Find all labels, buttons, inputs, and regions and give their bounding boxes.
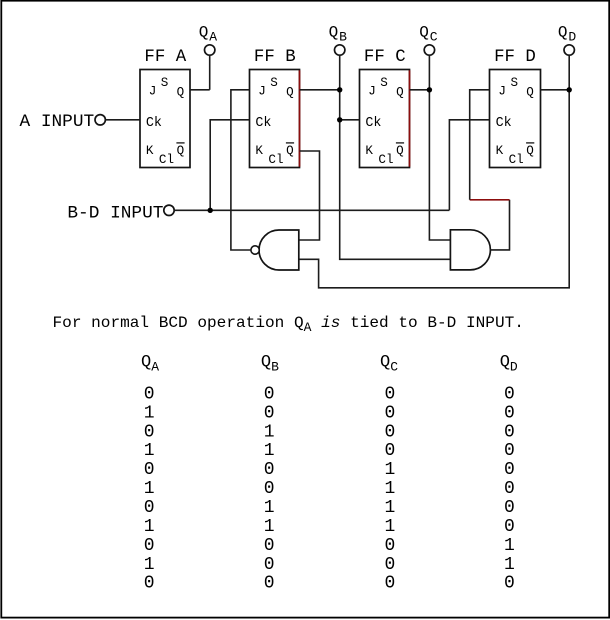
svg-text:S: S <box>161 76 169 90</box>
svg-text:Q: Q <box>500 353 510 372</box>
svg-text:0: 0 <box>384 403 395 423</box>
svg-text:0: 0 <box>264 536 275 556</box>
svg-text:1: 1 <box>384 517 395 537</box>
svg-text:S: S <box>380 76 388 90</box>
svg-text:Q: Q <box>199 23 209 41</box>
svg-text:FF B: FF B <box>254 48 296 67</box>
wire AND output riser to FF D J input <box>470 90 490 200</box>
NAND gate G1 output bubble <box>251 246 259 254</box>
truth table header QA <box>141 353 159 374</box>
svg-text:FF A: FF A <box>144 48 186 67</box>
svg-text:For normal BCD operation QA is: For normal BCD operation QA is tied to B… <box>53 314 524 335</box>
terminal QD circle <box>564 45 574 55</box>
wire B-D input to FF D clock <box>449 120 489 211</box>
svg-text:A INPUT: A INPUT <box>20 112 95 132</box>
svg-text:Cl: Cl <box>378 153 393 167</box>
svg-text:Q: Q <box>141 353 151 372</box>
svg-text:0: 0 <box>144 498 155 518</box>
truth table header QB <box>261 353 279 374</box>
svg-text:0: 0 <box>264 574 275 594</box>
terminal QC label <box>419 23 438 44</box>
svg-text:Q: Q <box>396 144 404 158</box>
terminal QA label <box>199 23 218 44</box>
svg-text:0: 0 <box>504 422 515 442</box>
svg-text:Q: Q <box>286 85 294 99</box>
junction FF D Q / QD terminal <box>567 87 572 92</box>
svg-text:K: K <box>365 144 373 158</box>
truth table column QD values <box>504 384 515 593</box>
svg-text:Cl: Cl <box>509 153 524 167</box>
svg-text:0: 0 <box>504 384 515 404</box>
svg-text:1: 1 <box>264 498 275 518</box>
svg-text:0: 0 <box>264 460 275 480</box>
svg-text:S: S <box>511 76 519 90</box>
NAND gate G1 body <box>259 230 299 270</box>
junction B-D bus to FF B clock <box>208 208 213 213</box>
svg-text:1: 1 <box>384 460 395 480</box>
svg-text:Ck: Ck <box>365 116 381 131</box>
wire FF B Q-bar to NAND gate upper input <box>299 151 320 240</box>
svg-text:1: 1 <box>264 517 275 537</box>
svg-text:FF C: FF C <box>364 48 406 67</box>
wire NAND output to FF B J input <box>231 90 251 250</box>
svg-text:K: K <box>146 144 154 158</box>
svg-text:1: 1 <box>144 479 155 499</box>
svg-text:C: C <box>390 359 398 374</box>
svg-text:Q: Q <box>286 144 294 158</box>
truth table column QC values <box>384 384 395 593</box>
svg-text:Q: Q <box>419 23 429 41</box>
svg-text:C: C <box>430 30 438 45</box>
svg-text:1: 1 <box>264 441 275 461</box>
svg-text:0: 0 <box>264 384 275 404</box>
svg-text:0: 0 <box>504 498 515 518</box>
terminal QB label <box>329 23 348 44</box>
svg-text:1: 1 <box>264 422 275 442</box>
svg-text:1: 1 <box>384 479 395 499</box>
svg-text:J: J <box>149 84 157 98</box>
svg-text:0: 0 <box>144 422 155 442</box>
svg-text:A: A <box>151 359 159 374</box>
wire A input to FF A clock <box>105 119 140 121</box>
svg-text:A: A <box>209 30 217 45</box>
svg-text:0: 0 <box>504 479 515 499</box>
svg-text:0: 0 <box>384 384 395 404</box>
svg-text:D: D <box>568 30 576 45</box>
truth table column QA values <box>144 384 155 593</box>
wire QA terminal to FF A Q output <box>190 55 210 90</box>
input terminal A circle <box>95 115 105 125</box>
svg-text:1: 1 <box>144 517 155 537</box>
svg-text:Q: Q <box>380 353 390 372</box>
svg-text:1: 1 <box>144 441 155 461</box>
svg-text:Ck: Ck <box>146 116 162 131</box>
svg-text:Q: Q <box>558 23 568 41</box>
terminal QA circle <box>205 45 215 55</box>
wire FF D Q output to QD terminal and NAND gate lower input rail <box>299 55 569 288</box>
svg-text:Q: Q <box>526 85 534 99</box>
svg-text:1: 1 <box>144 555 155 575</box>
svg-text:S: S <box>270 76 278 90</box>
flip-flop U1 FF A <box>140 70 190 168</box>
svg-text:0: 0 <box>384 555 395 575</box>
truth table header QD <box>500 353 518 374</box>
svg-text:FF D: FF D <box>494 48 536 67</box>
flip-flop U3 FF C <box>360 70 410 168</box>
svg-text:0: 0 <box>384 536 395 556</box>
svg-text:0: 0 <box>144 536 155 556</box>
flip-flop U4 FF D <box>490 70 541 168</box>
svg-text:0: 0 <box>384 574 395 594</box>
svg-text:0: 0 <box>504 403 515 423</box>
wire AND output to FF D J input <box>491 200 510 250</box>
flip-flop U2 FF B <box>250 70 300 168</box>
svg-text:J: J <box>368 84 376 98</box>
wire B-D input to FF B clock <box>210 120 249 211</box>
svg-text:0: 0 <box>504 460 515 480</box>
svg-text:0: 0 <box>504 574 515 594</box>
svg-text:Q: Q <box>526 144 534 158</box>
terminal QC circle <box>424 45 434 55</box>
wire FF C Q output to QC terminal and AND gate upper input <box>410 55 451 240</box>
truth table header QC <box>380 353 398 374</box>
svg-text:D: D <box>510 359 518 374</box>
junction FF C Q / QC terminal <box>427 87 432 92</box>
wire B-D input bus <box>174 209 449 211</box>
wire AND output red segment <box>470 199 510 201</box>
svg-text:B: B <box>271 359 279 374</box>
svg-text:Cl: Cl <box>268 153 283 167</box>
svg-text:0: 0 <box>504 517 515 537</box>
svg-text:Q: Q <box>261 353 271 372</box>
junction FF B Q / QB terminal <box>337 87 342 92</box>
junction QB to FF C clock <box>337 117 342 122</box>
svg-text:Cl: Cl <box>159 153 174 167</box>
svg-text:0: 0 <box>384 422 395 442</box>
svg-text:J: J <box>258 84 266 98</box>
input terminal B-D circle <box>164 205 174 215</box>
svg-text:1: 1 <box>504 536 515 556</box>
svg-text:K: K <box>255 144 263 158</box>
svg-text:K: K <box>496 144 504 158</box>
svg-text:0: 0 <box>504 441 515 461</box>
svg-text:Ck: Ck <box>496 116 512 131</box>
svg-text:1: 1 <box>144 403 155 423</box>
svg-text:0: 0 <box>264 403 275 423</box>
svg-text:Q: Q <box>177 85 185 99</box>
terminal QB circle <box>335 45 345 55</box>
AND gate G2 body <box>450 230 490 270</box>
svg-text:0: 0 <box>144 574 155 594</box>
svg-text:0: 0 <box>144 460 155 480</box>
svg-text:0: 0 <box>264 555 275 575</box>
svg-text:1: 1 <box>384 498 395 518</box>
truth table column QB values <box>264 384 275 593</box>
svg-text:0: 0 <box>144 384 155 404</box>
svg-text:1: 1 <box>504 555 515 575</box>
svg-text:0: 0 <box>384 441 395 461</box>
terminal QD label <box>558 23 577 44</box>
wire FF B Q output to QB terminal, FF C clock and AND gate lower input <box>300 55 451 259</box>
svg-text:0: 0 <box>264 479 275 499</box>
svg-text:Ck: Ck <box>255 116 271 131</box>
svg-text:Q: Q <box>396 85 404 99</box>
svg-text:Q: Q <box>177 144 185 158</box>
svg-text:B: B <box>339 30 347 45</box>
svg-text:J: J <box>498 84 506 98</box>
svg-text:B-D INPUT: B-D INPUT <box>67 204 163 224</box>
svg-text:Q: Q <box>329 23 339 41</box>
